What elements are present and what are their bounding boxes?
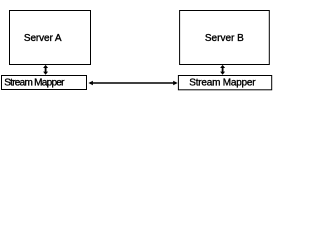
svg-text:Stream Mapper: Stream Mapper xyxy=(4,78,65,89)
svg-text:Server A: Server A xyxy=(24,33,62,44)
box Server A xyxy=(10,11,91,65)
svg-text:Server B: Server B xyxy=(205,33,244,44)
box Stream Mapper left xyxy=(2,76,87,90)
arrow Stream Mapper left to Stream Mapper right (horizontal double-headed) xyxy=(88,81,177,86)
box Stream Mapper right xyxy=(178,76,271,90)
arrow Server B to Stream Mapper right (vertical double-headed) xyxy=(220,65,225,75)
arrow Server A to Stream Mapper left (vertical double-headed) xyxy=(43,65,48,75)
box Server B xyxy=(180,11,270,65)
svg-text:Stream Mapper: Stream Mapper xyxy=(189,78,256,89)
